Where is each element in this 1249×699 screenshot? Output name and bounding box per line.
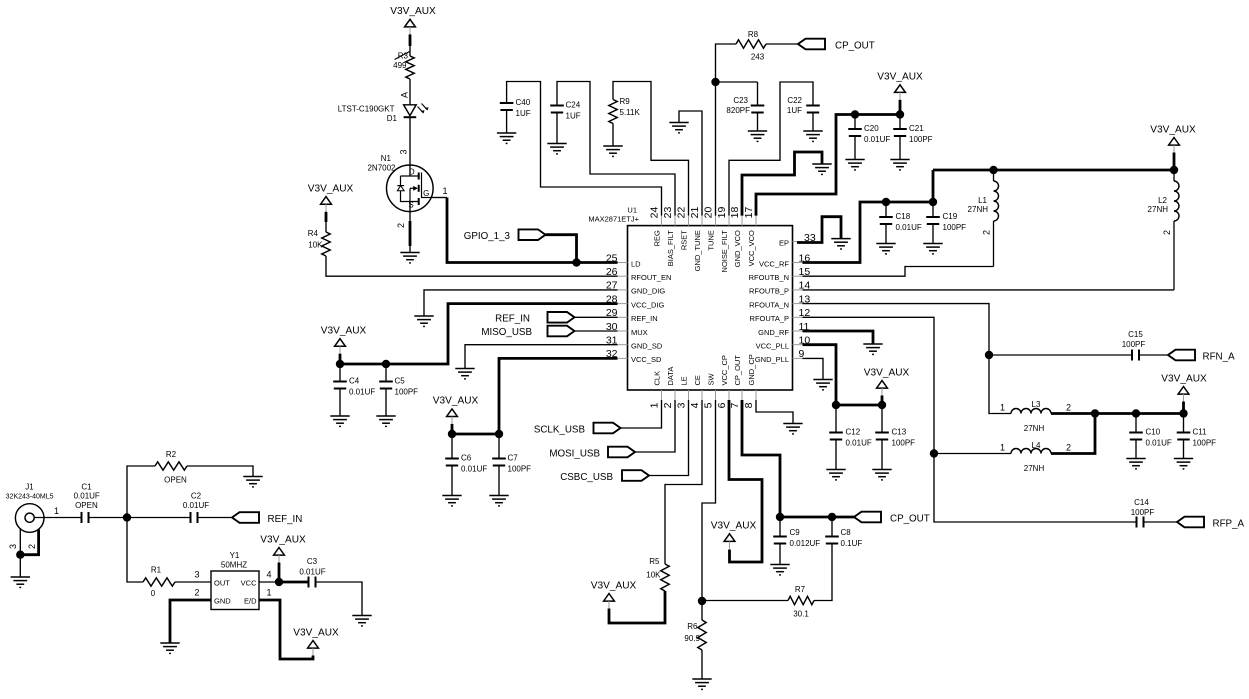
- svg-text:OUT: OUT: [214, 579, 230, 588]
- svg-text:J1: J1: [25, 483, 34, 492]
- svg-text:820PF: 820PF: [726, 106, 750, 115]
- ground (C13): [872, 470, 891, 480]
- svg-text:R2: R2: [166, 450, 177, 459]
- wire C1 to junction node: [89, 517, 128, 519]
- junction (RFP_A tap): [930, 449, 938, 457]
- svg-text:V3V_AUX: V3V_AUX: [433, 396, 479, 407]
- capacitor C1 0.01UF OPEN: [82, 512, 89, 523]
- ground (C10): [1126, 459, 1145, 469]
- junction (C5 top): [382, 360, 390, 368]
- svg-text:R5: R5: [649, 557, 660, 566]
- svg-text:LD: LD: [631, 259, 641, 268]
- capacitor C19 100PF: [932, 202, 934, 217]
- svg-text:100PF: 100PF: [909, 135, 933, 144]
- svg-text:C3: C3: [307, 557, 318, 566]
- svg-text:V3V_AUX: V3V_AUX: [293, 627, 339, 638]
- power V3V_AUX (R5): [604, 594, 615, 602]
- ground (GND_SD): [455, 369, 474, 379]
- capacitor C24 1UF: [550, 106, 564, 113]
- svg-text:R8: R8: [748, 30, 759, 39]
- svg-text:U1: U1: [627, 206, 637, 215]
- svg-text:VCC: VCC: [241, 579, 257, 588]
- wire R8 to TUNE pin 20: [716, 44, 737, 216]
- junction (C9 top): [776, 513, 784, 521]
- wire DATA pin 2 to MOSI_USB flag: [635, 400, 675, 452]
- power V3V_AUX (C4/C5): [335, 339, 346, 347]
- junction (C8 top): [828, 513, 836, 521]
- svg-text:243: 243: [751, 53, 765, 62]
- wire L4 to L3/L4 junction: [1051, 414, 1095, 454]
- svg-text:REF_IN: REF_IN: [495, 313, 530, 324]
- flag CP_OUT (charge pump): [854, 512, 881, 523]
- svg-text:0.1UF: 0.1UF: [841, 539, 863, 548]
- wire L1 to RFOUTB_N pin 15: [803, 267, 994, 277]
- wire RFP_A tap to C14: [934, 454, 1137, 523]
- wire MISO_USB flag to pin 30: [575, 330, 618, 332]
- svg-text:RFP_A: RFP_A: [1213, 518, 1245, 529]
- ground (C9): [770, 565, 789, 575]
- capacitor C20 0.01UF: [854, 115, 856, 130]
- svg-text:E/D: E/D: [244, 597, 257, 606]
- svg-text:C23: C23: [733, 96, 748, 105]
- svg-text:GND_RF: GND_RF: [758, 328, 789, 337]
- wire C15 to RFN_A flag: [1139, 354, 1168, 356]
- svg-text:27NH: 27NH: [1024, 424, 1045, 433]
- svg-text:1: 1: [649, 402, 661, 408]
- ground (GND_TUNE pin 21): [669, 123, 688, 133]
- svg-text:MISO_USB: MISO_USB: [481, 327, 532, 338]
- svg-text:2: 2: [1066, 403, 1071, 413]
- svg-text:L4: L4: [1032, 441, 1041, 450]
- inductor L4 27NH: [1011, 449, 1051, 454]
- wire C2 to REF_IN flag: [198, 517, 233, 519]
- svg-text:27NH: 27NH: [1024, 464, 1045, 473]
- flag SCLK_USB: [594, 423, 621, 434]
- wire J1 pin 2 stub: [20, 530, 38, 555]
- resistor R8 243: [736, 40, 766, 48]
- svg-text:C9: C9: [790, 528, 801, 537]
- capacitor C15 100PF: [1132, 350, 1139, 361]
- inductor L1 27NH: [993, 170, 995, 181]
- wire R4 to RFOUT_EN pin 26: [326, 256, 618, 276]
- svg-text:2: 2: [1162, 230, 1172, 235]
- flag REF_IN (pin 29): [548, 312, 575, 323]
- ground (C7): [489, 496, 508, 506]
- junction (TUNE / C23): [711, 78, 719, 86]
- svg-text:V3V_AUX: V3V_AUX: [308, 183, 354, 194]
- svg-text:C10: C10: [1146, 428, 1161, 437]
- resistor R7 30.1: [702, 600, 788, 602]
- LED D1 LTST-C190GKT: [404, 105, 417, 116]
- svg-text:100PF: 100PF: [395, 388, 419, 397]
- svg-text:A: A: [400, 92, 410, 98]
- svg-text:L3: L3: [1032, 400, 1041, 409]
- wire V3V_AUX to R4: [325, 212, 327, 232]
- ground (C23): [748, 131, 767, 141]
- power V3V_AUX (Y1 E/D): [308, 641, 319, 649]
- ground (C21): [890, 160, 909, 170]
- junction (J1 shield): [16, 551, 24, 559]
- junction (LD / GPIO_1_3): [572, 258, 580, 266]
- svg-text:19: 19: [716, 207, 728, 219]
- wire N1 source to ground: [409, 202, 411, 253]
- svg-text:0.01UF: 0.01UF: [1146, 439, 1172, 448]
- svg-text:C19: C19: [943, 212, 958, 221]
- junction (L1 top): [989, 166, 997, 174]
- ground (R9): [603, 146, 622, 156]
- svg-text:C14: C14: [1134, 498, 1149, 507]
- svg-text:3: 3: [8, 544, 18, 549]
- ground (C22): [803, 131, 822, 141]
- ground (EP): [831, 239, 850, 249]
- svg-text:GND: GND: [214, 597, 231, 606]
- wire VCC_RF pin 16 to C18/C19: [803, 170, 934, 263]
- svg-text:S: S: [408, 201, 413, 210]
- svg-text:0.01UF: 0.01UF: [74, 492, 100, 501]
- svg-text:V3V_AUX: V3V_AUX: [1161, 373, 1207, 384]
- svg-text:100PF: 100PF: [1193, 439, 1217, 448]
- op-amp U1 MAX2871ETJ+ body: [628, 226, 793, 390]
- svg-text:2: 2: [1066, 443, 1071, 453]
- wire EP pin 33 to ground: [797, 217, 841, 243]
- svg-text:5: 5: [703, 402, 715, 408]
- wire LE pin 3 to CSBC_USB flag: [649, 400, 689, 476]
- capacitor C13 100PF: [881, 405, 883, 433]
- svg-text:10K: 10K: [646, 571, 661, 580]
- svg-text:V3V_AUX: V3V_AUX: [711, 521, 757, 532]
- wire RFOUTA_N pin 13 to L3: [803, 304, 1012, 414]
- wire J1 pin 3 stub: [19, 529, 21, 555]
- power V3V_AUX (VCC_CP): [724, 534, 735, 542]
- wire R1 to Y1 OUT pin 3: [175, 581, 211, 583]
- capacitor C7 100PF: [498, 434, 500, 459]
- capacitor C22 1UF: [806, 106, 820, 113]
- svg-text:100PF: 100PF: [508, 465, 532, 474]
- svg-text:4: 4: [689, 402, 701, 408]
- svg-text:GND_SD: GND_SD: [631, 342, 663, 351]
- inductor L3 27NH: [1011, 409, 1051, 414]
- junction (REF_IN node): [123, 513, 131, 521]
- svg-text:C7: C7: [508, 454, 519, 463]
- svg-text:C13: C13: [892, 428, 907, 437]
- svg-text:RSET: RSET: [680, 230, 689, 250]
- capacitor C3 0.01UF: [309, 577, 316, 588]
- wire L3 to C10/C11 rail: [1051, 412, 1095, 415]
- wire GND_CP pin 8 to ground: [756, 400, 793, 423]
- svg-text:R4: R4: [308, 229, 319, 238]
- svg-text:MUX: MUX: [631, 328, 648, 337]
- wire CLK pin 1 to SCLK_USB flag: [621, 400, 662, 428]
- wire node down to R1: [127, 518, 143, 583]
- capacitor C9 0.012UF: [779, 517, 781, 537]
- svg-text:50MHZ: 50MHZ: [221, 561, 247, 570]
- svg-text:8: 8: [743, 402, 755, 408]
- svg-text:2: 2: [194, 588, 199, 598]
- svg-text:N1: N1: [381, 154, 392, 163]
- svg-text:OPEN: OPEN: [164, 476, 187, 485]
- svg-text:0.01UF: 0.01UF: [864, 135, 890, 144]
- svg-text:REF_IN: REF_IN: [631, 314, 658, 323]
- wire L2 to RFOUTB_P pin 14: [803, 289, 1175, 291]
- svg-text:2N7002: 2N7002: [367, 164, 396, 173]
- svg-text:27NH: 27NH: [1148, 205, 1169, 214]
- svg-text:27NH: 27NH: [968, 205, 989, 214]
- svg-text:RFOUTA_P: RFOUTA_P: [750, 314, 789, 323]
- svg-text:3: 3: [676, 402, 688, 408]
- svg-text:V3V_AUX: V3V_AUX: [864, 367, 910, 378]
- junction (C12 top): [832, 401, 840, 409]
- wire RSET pin 22 to R9: [613, 82, 689, 216]
- wire C3 to ground: [316, 582, 363, 615]
- wire junction to C15: [989, 354, 1132, 356]
- svg-text:G: G: [423, 189, 429, 198]
- svg-text:CP_OUT: CP_OUT: [835, 40, 875, 51]
- svg-text:V3V_AUX: V3V_AUX: [260, 534, 306, 545]
- wire VCC_SD pin 32 to C6/C7 rail: [452, 358, 618, 434]
- wire GND_TUNE pin 21 to ground: [679, 111, 702, 216]
- svg-text:GND_TUNE: GND_TUNE: [693, 230, 702, 271]
- svg-text:100PF: 100PF: [1131, 508, 1155, 517]
- inductor L2 27NH: [1173, 170, 1175, 181]
- capacitor C5 100PF: [385, 364, 387, 382]
- svg-text:REG: REG: [653, 230, 662, 246]
- ground (C24): [547, 144, 566, 154]
- svg-text:D1: D1: [387, 114, 398, 123]
- wire CP_OUT pin 7 to C9/C8 rail: [742, 400, 854, 517]
- svg-text:100PF: 100PF: [1122, 340, 1146, 349]
- svg-text:0.01UF: 0.01UF: [183, 501, 209, 510]
- wire R3 to D1 anode, node A: [409, 79, 411, 105]
- svg-text:7: 7: [729, 402, 741, 408]
- junction (L2 top / V3V_AUX): [1170, 166, 1178, 174]
- wire C14 to RFP_A flag: [1144, 521, 1178, 523]
- wire node up to R2: [127, 466, 155, 518]
- connector J1 32K243-40ML5: [15, 504, 44, 533]
- wire CE pin 4 to R5: [665, 400, 702, 564]
- svg-text:VCC_DIG: VCC_DIG: [631, 300, 665, 309]
- resistor R9 5.11K: [609, 100, 617, 124]
- svg-text:TUNE: TUNE: [707, 230, 716, 250]
- wire NOISE_FILT pin 19 to C22: [729, 82, 813, 216]
- junction (C7 top): [495, 430, 503, 438]
- svg-text:C22: C22: [787, 96, 802, 105]
- wire node to C3: [279, 581, 309, 584]
- svg-text:NOISE_FILT: NOISE_FILT: [720, 230, 729, 273]
- svg-text:10K: 10K: [308, 241, 323, 250]
- ground (C6): [442, 496, 461, 506]
- svg-text:1UF: 1UF: [787, 106, 802, 115]
- junction (C20 top): [851, 110, 859, 118]
- svg-text:VCC_PLL: VCC_PLL: [756, 342, 789, 351]
- capacitor C8 0.1UF: [825, 537, 839, 544]
- svg-text:RFOUTA_N: RFOUTA_N: [749, 300, 789, 309]
- svg-text:1: 1: [54, 506, 59, 516]
- wire GPIO_1_3 flag to LD net: [546, 235, 577, 263]
- wire BIAS_FILT pin 23 to C24: [557, 82, 675, 216]
- wire R2 to ground: [187, 466, 253, 476]
- svg-text:C8: C8: [841, 528, 852, 537]
- svg-text:CE: CE: [693, 375, 702, 385]
- junction (RFN_A tap): [985, 351, 993, 359]
- ground (GND_PLL): [813, 380, 832, 390]
- svg-text:RFOUTB_N: RFOUTB_N: [749, 273, 789, 282]
- svg-text:VCC_RF: VCC_RF: [759, 259, 789, 268]
- svg-text:1: 1: [442, 186, 447, 196]
- ground (Y1): [160, 643, 179, 653]
- svg-text:1UF: 1UF: [516, 109, 531, 118]
- svg-text:REF_IN: REF_IN: [268, 514, 303, 525]
- svg-text:CP_OUT: CP_OUT: [733, 355, 742, 386]
- ground (C18): [876, 244, 895, 254]
- ground (C40): [497, 133, 516, 143]
- svg-text:C21: C21: [909, 124, 924, 133]
- capacitor C21 100PF: [899, 115, 901, 130]
- wire junction to ground: [19, 555, 21, 577]
- svg-text:LTST-C190GKT: LTST-C190GKT: [338, 105, 395, 114]
- ground (GND_DIG): [414, 316, 433, 326]
- wire R7 to C8: [814, 544, 832, 601]
- svg-text:0.01UF: 0.01UF: [299, 568, 325, 577]
- ground (J1): [11, 577, 30, 587]
- resistor R2 OPEN: [155, 462, 187, 470]
- svg-text:SW: SW: [707, 372, 716, 385]
- wire Y1 GND pin 2 to ground: [170, 600, 211, 643]
- svg-text:VCC_CP: VCC_CP: [720, 355, 729, 385]
- svg-text:Y1: Y1: [230, 551, 240, 560]
- svg-text:C24: C24: [566, 101, 581, 110]
- power V3V_AUX (C20/C21): [895, 85, 906, 93]
- svg-text:C4: C4: [349, 377, 360, 386]
- svg-text:6: 6: [716, 402, 728, 408]
- svg-text:1: 1: [1000, 403, 1005, 413]
- wire Y1 VCC pin 4 node: [259, 581, 279, 583]
- flag CSBC_USB: [622, 470, 649, 481]
- junction (C10 top): [1132, 409, 1140, 417]
- power V3V_AUX (C10/C11): [1178, 387, 1189, 395]
- wire GND_DIG pin 27 to ground: [424, 290, 618, 316]
- wire VCC_CP pin 6 to V3V_AUX: [729, 400, 762, 562]
- svg-text:SCLK_USB: SCLK_USB: [534, 424, 586, 435]
- wire REF_IN flag to pin 29: [575, 316, 618, 318]
- svg-text:RFOUTB_P: RFOUTB_P: [749, 287, 789, 296]
- power V3V_AUX (L1/L2 rail): [1169, 138, 1180, 146]
- svg-text:L1: L1: [978, 196, 987, 205]
- svg-text:R1: R1: [151, 566, 162, 575]
- flag RFP_A: [1177, 517, 1204, 528]
- junction (C19 top): [929, 198, 937, 206]
- wire V3V_AUX rail to L1/L2: [933, 169, 1174, 172]
- svg-text:2: 2: [981, 230, 991, 235]
- svg-text:0.01UF: 0.01UF: [896, 223, 922, 232]
- svg-text:L2: L2: [1158, 196, 1167, 205]
- svg-text:0.01UF: 0.01UF: [846, 439, 872, 448]
- svg-text:C12: C12: [846, 428, 861, 437]
- power V3V_AUX (C12/C13): [877, 381, 888, 389]
- junction (Y1 VCC): [275, 578, 283, 586]
- svg-text:V3V_AUX: V3V_AUX: [877, 72, 923, 83]
- svg-text:20: 20: [703, 207, 715, 219]
- wire REG pin 24 to C40: [507, 82, 662, 216]
- svg-text:D: D: [409, 168, 415, 177]
- svg-text:21: 21: [689, 207, 701, 219]
- svg-text:0: 0: [151, 589, 156, 598]
- resistor R4 10K: [322, 232, 330, 256]
- capacitor C40 1UF: [500, 103, 514, 110]
- wire D1 cathode to N1 drain: [409, 117, 411, 176]
- flag GPIO_1_3: [519, 229, 546, 240]
- junction (C18 top): [882, 198, 890, 206]
- svg-text:R6: R6: [687, 622, 698, 631]
- wire C10/C11 rail: [1095, 412, 1184, 415]
- power V3V_AUX (top, LED chain): [405, 19, 416, 27]
- capacitor C23 820PF: [757, 82, 759, 106]
- ground (N1 source): [400, 253, 419, 263]
- wire VCC_PLL pin 10 to C12/C13 rail: [803, 345, 883, 405]
- transistor N1 2N7002: [387, 165, 434, 212]
- svg-text:C5: C5: [395, 377, 406, 386]
- svg-text:0.01UF: 0.01UF: [461, 465, 487, 474]
- svg-text:C20: C20: [864, 124, 879, 133]
- capacitor C18 0.01UF: [885, 202, 887, 217]
- svg-text:90.9: 90.9: [684, 634, 700, 643]
- capacitor C2 0.01UF: [191, 512, 198, 523]
- svg-text:LE: LE: [680, 376, 689, 385]
- ground (C4): [330, 416, 349, 426]
- power V3V_AUX (R4 pull-up): [321, 197, 332, 205]
- svg-text:24: 24: [649, 207, 661, 219]
- svg-text:CSBC_USB: CSBC_USB: [560, 472, 613, 483]
- svg-text:2: 2: [27, 544, 37, 549]
- wire R8 to CP_OUT flag: [766, 43, 798, 45]
- ground (C12): [826, 470, 845, 480]
- svg-text:0.012UF: 0.012UF: [790, 539, 821, 548]
- junction (C4 top): [336, 360, 344, 368]
- svg-text:100PF: 100PF: [892, 439, 916, 448]
- wire J1 pin 1 to C1: [34, 517, 81, 519]
- ground (C3): [352, 616, 371, 626]
- svg-text:GND_DIG: GND_DIG: [631, 287, 665, 296]
- junction (C13 top): [878, 401, 886, 409]
- junction (L3/L4): [1091, 409, 1099, 417]
- wire SW pin 5 to R6/R7 node: [702, 400, 716, 601]
- svg-text:RFOUT_EN: RFOUT_EN: [631, 273, 671, 282]
- svg-text:BIAS_FILT: BIAS_FILT: [666, 230, 675, 267]
- capacitor C12 0.01UF: [835, 405, 837, 433]
- svg-text:5.11K: 5.11K: [620, 108, 641, 117]
- svg-text:C18: C18: [896, 212, 911, 221]
- svg-text:1: 1: [266, 588, 271, 598]
- wire R5 to V3V_AUX: [609, 591, 665, 623]
- wire Y1 E/D pin 1 to V3V_AUX: [259, 600, 313, 659]
- junction (C11 top): [1179, 409, 1187, 417]
- flag REF_IN (J1 side): [232, 512, 259, 523]
- power V3V_AUX (Y1 VCC): [274, 548, 285, 556]
- capacitor C14 100PF: [1137, 517, 1144, 528]
- svg-text:18: 18: [729, 207, 741, 219]
- svg-text:MOSI_USB: MOSI_USB: [549, 448, 600, 459]
- wire VCC_DIG pin 28 to C4/C5 rail: [340, 304, 618, 364]
- svg-text:C11: C11: [1193, 428, 1208, 437]
- wire GND_PLL pin 9 to ground: [803, 358, 824, 379]
- svg-text:V3V_AUX: V3V_AUX: [591, 580, 637, 591]
- svg-text:R7: R7: [795, 585, 806, 594]
- wire RFOUTA_P pin 12 to L4: [803, 317, 1012, 453]
- svg-text:17: 17: [743, 207, 755, 219]
- ground (C20): [845, 160, 864, 170]
- flag RFN_A: [1168, 350, 1195, 361]
- U1 pin stubs: [618, 216, 803, 400]
- svg-text:C40: C40: [516, 98, 531, 107]
